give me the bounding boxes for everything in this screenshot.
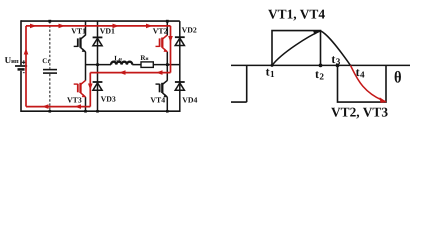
svg-text:Rн: Rн bbox=[140, 54, 148, 62]
wire red top segment bbox=[26, 25, 171, 27]
waveform positive pulse (VT1,VT4) bbox=[272, 31, 321, 66]
dot t3 bbox=[336, 64, 340, 68]
current curve falling (red below axis) bbox=[351, 65, 387, 101]
wire top rail bbox=[21, 20, 180, 22]
red arrow left (bottom segment) 1 bbox=[42, 104, 49, 109]
red arrow up (left segment) bbox=[24, 48, 29, 55]
wire VD2/VD4 leg (right edge) bbox=[179, 21, 181, 112]
red arrow left (mid segment) 1 bbox=[119, 70, 126, 75]
dot t1 bbox=[271, 64, 274, 67]
red arrow left (bottom segment) 2 bbox=[75, 104, 82, 109]
red arrow top 3 bbox=[113, 24, 120, 29]
junction dot VT3 leg bottom bbox=[84, 110, 87, 113]
transistor VT3 (IGBT, red) bbox=[74, 80, 86, 97]
junction dot VT2 leg / load line bbox=[166, 63, 169, 66]
svg-text:VT2, VT3: VT2, VT3 bbox=[331, 105, 388, 120]
diode VD3 bbox=[93, 82, 103, 90]
red arrow down (right segment) bbox=[168, 36, 173, 43]
junction dot VD1 leg / load line bbox=[96, 63, 99, 66]
transistor VT1 (IGBT, black) bbox=[74, 35, 86, 52]
junction dot C1 top bbox=[48, 20, 51, 23]
diode VD4 bbox=[175, 82, 185, 90]
svg-text:θ: θ bbox=[394, 69, 402, 87]
current curve falling (black above axis) bbox=[321, 31, 351, 66]
svg-text:VT1: VT1 bbox=[71, 26, 86, 35]
svg-text:VD4: VD4 bbox=[182, 95, 197, 104]
svg-text:VT3: VT3 bbox=[67, 95, 82, 104]
waveform negative pulse (VT2,VT3) bbox=[338, 65, 387, 102]
wire VT1/VT3 leg bbox=[85, 21, 87, 112]
svg-text:VT1, VT4: VT1, VT4 bbox=[268, 7, 325, 22]
svg-text:VD3: VD3 bbox=[101, 95, 116, 104]
dot t2 bbox=[319, 64, 323, 68]
junction dot VT4 leg bottom bbox=[166, 110, 169, 113]
red arrow top 4 bbox=[146, 24, 153, 29]
svg-text:C1: C1 bbox=[42, 57, 50, 65]
black arrowhead at curve peak bbox=[313, 30, 321, 35]
wire red right segment (beside VT2) bbox=[170, 26, 172, 73]
red arrowhead at curve end bbox=[380, 97, 387, 103]
waveform tail (previous negative half-cycle) bbox=[231, 65, 247, 102]
wire red left segment bbox=[25, 26, 27, 107]
battery Uип short plate bbox=[18, 68, 25, 71]
svg-text:Lн: Lн bbox=[114, 55, 122, 63]
wire VD1/VD3 leg bbox=[97, 21, 99, 112]
resistor Rн bbox=[141, 62, 153, 68]
wire red mid segment bbox=[90, 72, 170, 74]
diode VD1 bbox=[93, 37, 103, 45]
capacitor C1 bottom plate bbox=[43, 72, 57, 74]
axis theta bbox=[231, 64, 410, 66]
svg-text:VT4: VT4 bbox=[150, 95, 165, 104]
junction dot VD3 leg bottom bbox=[96, 110, 99, 113]
red current loop bbox=[26, 26, 171, 107]
junction dot VT2 leg top bbox=[166, 20, 169, 23]
wire left border (battery branch) bbox=[20, 20, 22, 112]
wire red bottom segment bbox=[26, 106, 90, 108]
current curve rising quarter-sine (black) bbox=[272, 31, 321, 66]
svg-text:VD2: VD2 bbox=[182, 26, 197, 35]
red arrow left (mid segment) 2 bbox=[156, 70, 163, 75]
wire C1 dashed branch bbox=[49, 21, 51, 112]
battery plus sign bbox=[22, 60, 26, 64]
inductor Lн bbox=[111, 62, 132, 65]
wire VT2/VT4 leg bbox=[166, 21, 168, 112]
diode VD2 bbox=[175, 37, 185, 45]
battery minus sign bbox=[23, 72, 25, 74]
red arrow down (VT3-side segment) bbox=[88, 84, 93, 91]
capacitor C1 top plate bbox=[43, 69, 57, 71]
wire load line bbox=[86, 64, 180, 66]
junction dot C1 bottom bbox=[49, 110, 52, 113]
svg-text:VT2: VT2 bbox=[153, 27, 168, 36]
transistor VT4 (IGBT, black) bbox=[156, 80, 168, 97]
red arrow top 2 bbox=[59, 24, 66, 29]
wire red VT3-side segment bbox=[89, 73, 91, 107]
battery Uип long plate bbox=[15, 65, 27, 67]
transistor VT2 (IGBT, red) bbox=[156, 35, 168, 52]
wire bottom rail bbox=[21, 110, 180, 112]
red arrow top 1 bbox=[30, 24, 37, 29]
